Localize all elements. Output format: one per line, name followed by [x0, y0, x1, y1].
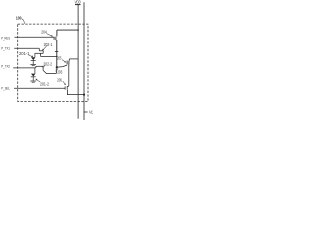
- svg-text:206: 206: [57, 77, 62, 82]
- svg-text:P_TX1: P_TX1: [1, 45, 10, 50]
- svg-text:P_RES: P_RES: [1, 35, 10, 40]
- svg-text:P_TX2: P_TX2: [1, 63, 10, 68]
- svg-text:P_SEL: P_SEL: [1, 85, 10, 90]
- svg-text:202-1: 202-1: [44, 42, 53, 47]
- svg-text:VL: VL: [89, 110, 94, 115]
- svg-text:100: 100: [16, 16, 22, 22]
- svg-text:201-2: 201-2: [40, 81, 49, 86]
- svg-text:204: 204: [41, 30, 47, 35]
- svg-text:201-1: 201-1: [19, 51, 30, 56]
- svg-text:202-2: 202-2: [43, 61, 52, 66]
- svg-text:203: 203: [57, 69, 62, 74]
- svg-text:205: 205: [57, 55, 61, 60]
- svg-text:VDD: VDD: [75, 0, 82, 5]
